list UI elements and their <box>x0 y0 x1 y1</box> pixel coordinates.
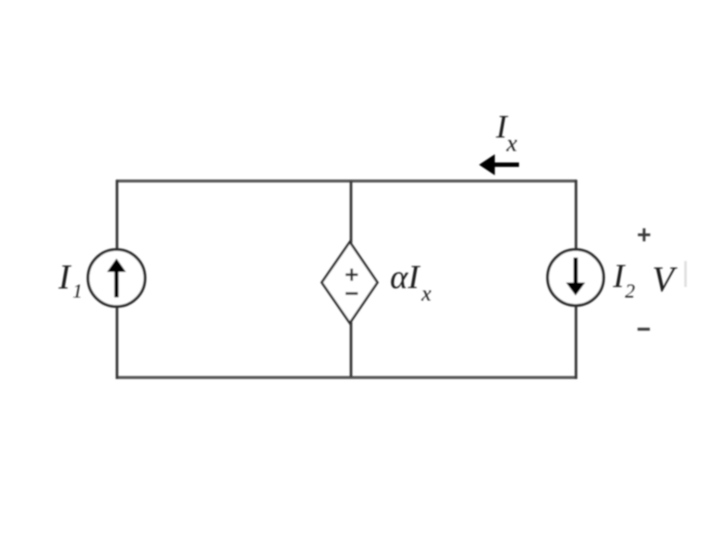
svg-text:1: 1 <box>73 281 83 303</box>
svg-text:x: x <box>506 131 518 157</box>
svg-text:αI: αI <box>390 259 421 296</box>
svg-text:I: I <box>612 258 626 295</box>
svg-text:I: I <box>58 258 73 297</box>
svg-text:x: x <box>421 281 432 306</box>
svg-text:2: 2 <box>625 281 635 303</box>
svg-text:V: V <box>652 259 678 299</box>
